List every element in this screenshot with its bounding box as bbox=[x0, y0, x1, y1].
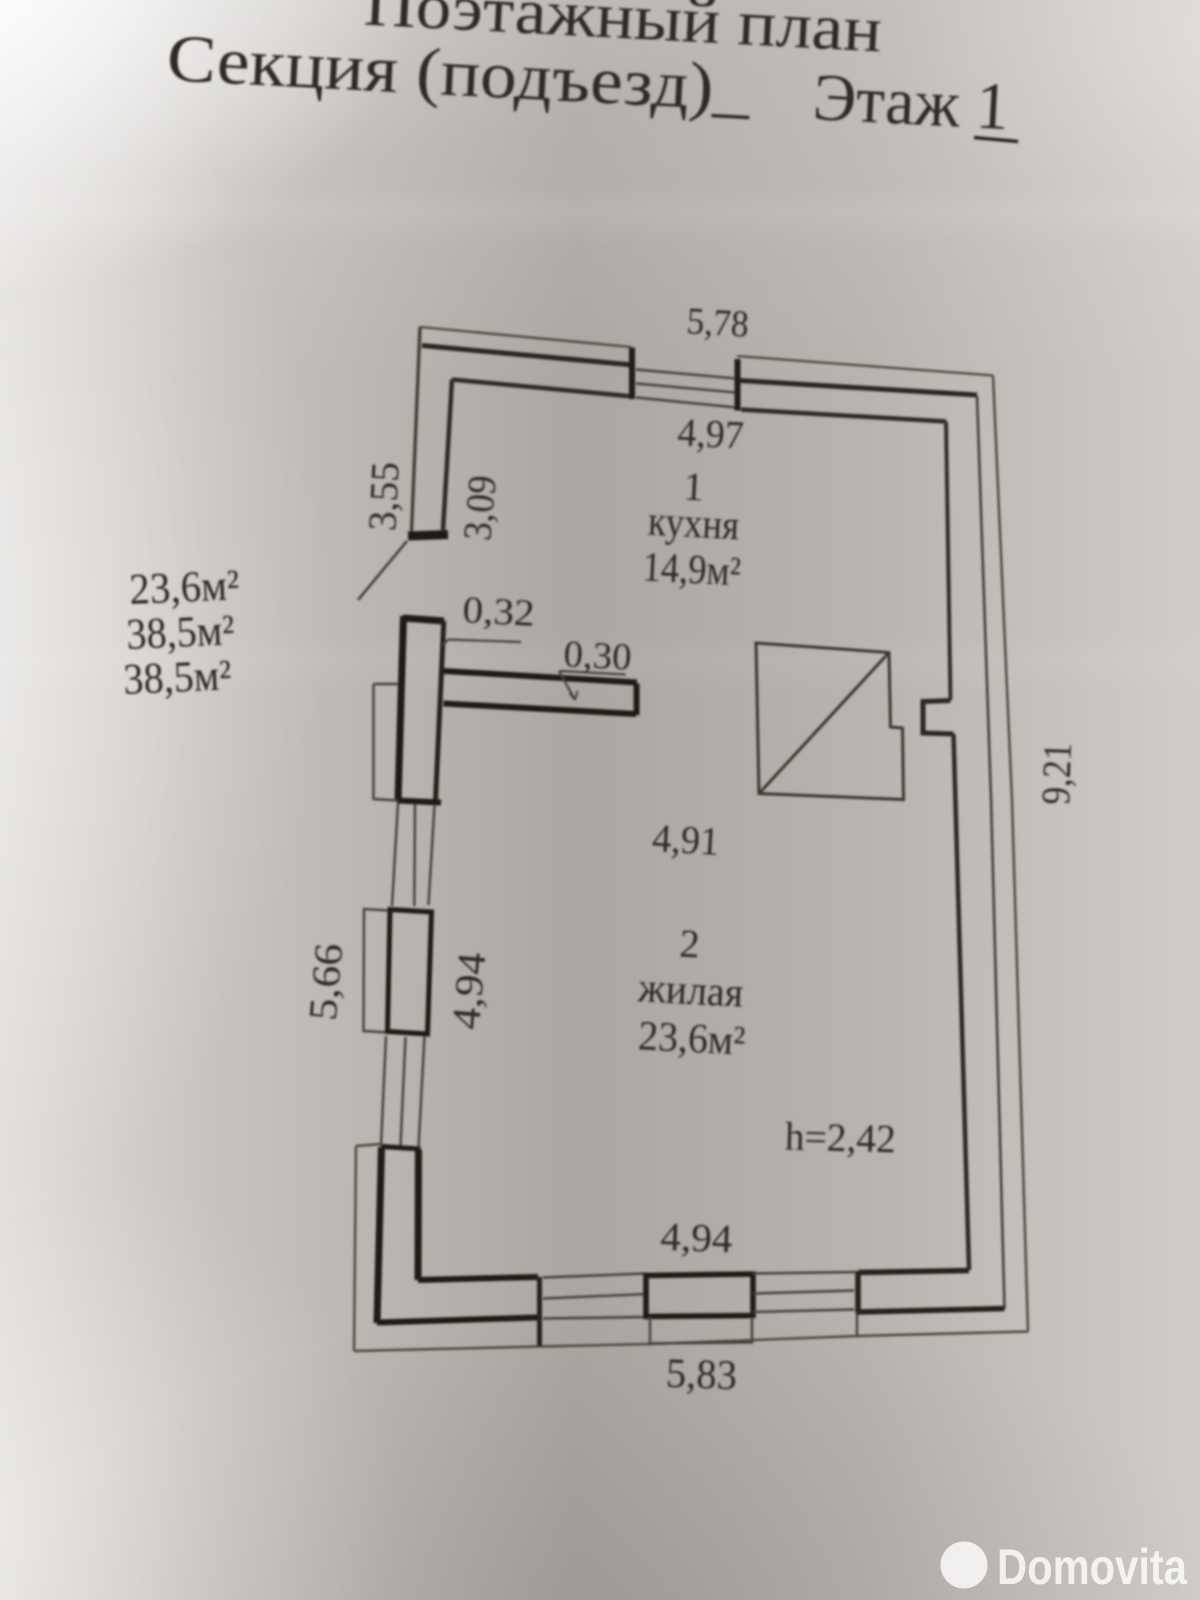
svg-text:жилая: жилая bbox=[636, 965, 744, 1016]
svg-text:5,66: 5,66 bbox=[300, 942, 352, 1023]
svg-text:14,9м²: 14,9м² bbox=[642, 544, 742, 595]
svg-text:4,94: 4,94 bbox=[660, 1214, 734, 1261]
svg-text:0,32: 0,32 bbox=[462, 589, 536, 635]
svg-text:кухня: кухня bbox=[647, 499, 740, 550]
svg-text:h=2,42: h=2,42 bbox=[784, 1114, 896, 1162]
svg-text:2: 2 bbox=[679, 921, 701, 967]
svg-text:Этаж 1: Этаж 1 bbox=[811, 60, 1011, 144]
svg-text:3,55: 3,55 bbox=[359, 461, 408, 532]
svg-text:9,21: 9,21 bbox=[1033, 742, 1080, 806]
svg-text:Domovita: Domovita bbox=[997, 1539, 1188, 1595]
svg-text:5,78: 5,78 bbox=[686, 300, 750, 346]
svg-text:5,83: 5,83 bbox=[665, 1351, 738, 1399]
svg-text:38,5м²: 38,5м² bbox=[122, 650, 232, 704]
svg-text:0,30: 0,30 bbox=[563, 633, 633, 679]
svg-text:4,97: 4,97 bbox=[677, 409, 745, 457]
svg-text:23,6м²: 23,6м² bbox=[637, 1013, 746, 1065]
svg-text:3,09: 3,09 bbox=[454, 473, 504, 542]
svg-text:4,91: 4,91 bbox=[651, 815, 720, 864]
svg-text:4,94: 4,94 bbox=[443, 951, 495, 1032]
